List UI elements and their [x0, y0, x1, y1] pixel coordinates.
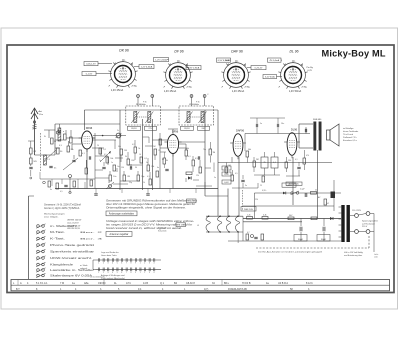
svg-text:A#a: A#a	[84, 282, 89, 285]
svg-text:LW KW 28,5V: LW KW 28,5V	[67, 228, 81, 230]
svg-text:70p: 70p	[203, 149, 206, 151]
svg-text:470: 470	[306, 155, 309, 157]
svg-text:0,4k: 0,4k	[263, 215, 267, 217]
svg-text:0,5: 0,5	[60, 191, 63, 193]
svg-text:5n: 5n	[54, 168, 56, 170]
svg-text:auf Rückwand: auf Rückwand	[362, 223, 375, 225]
svg-text:2: 2	[144, 272, 145, 274]
svg-text:Änderungen vorbehalten: Änderungen vorbehalten	[109, 213, 135, 216]
svg-text:g: g	[302, 65, 303, 67]
svg-text:8 12 b: 8 12 b	[306, 282, 313, 285]
svg-text:LW: LW	[34, 151, 37, 153]
svg-text:g: g	[245, 65, 246, 67]
svg-text:3n: 3n	[117, 166, 119, 168]
svg-text:0,4V: 0,4V	[224, 182, 229, 184]
svg-text:Antennen regelbar: Antennen regelbar	[110, 233, 129, 236]
svg-text:4,7: 4,7	[247, 232, 250, 234]
svg-text:50k: 50k	[118, 146, 121, 148]
svg-text:50k: 50k	[248, 149, 251, 151]
svg-text:1,2m: 1,2m	[39, 114, 44, 116]
svg-text:2M: 2M	[256, 159, 259, 161]
svg-text:7: 7	[126, 272, 127, 274]
svg-text:12k: 12k	[196, 175, 199, 177]
svg-text:B6 u: B6 u	[224, 282, 230, 285]
svg-text:Phono-Taste gedrückt: Phono-Taste gedrückt	[50, 244, 95, 247]
svg-text:1M: 1M	[124, 150, 127, 152]
svg-text:über 10V mit 333Ω/Volt gegen M: über 10V mit 333Ω/Volt gegen Masse gemes…	[106, 203, 195, 206]
svg-text:1,2V 0,3mA: 1,2V 0,3mA	[141, 66, 153, 69]
svg-text:6,3: 6,3	[59, 145, 62, 147]
svg-text:1: 1	[98, 263, 99, 265]
svg-text:Gnd an t.) Ug=0..220V (T)=: Gnd an t.) Ug=0..220V (T)=625mA	[44, 207, 80, 210]
svg-text:Q 1: Q 1	[160, 282, 165, 285]
svg-text:mit 2x Umlenkrolle: mit 2x Umlenkrolle	[90, 276, 105, 279]
svg-text:8: 8	[131, 263, 132, 265]
svg-text:20: 20	[97, 145, 99, 147]
svg-text:1,4V 50mA: 1,4V 50mA	[289, 90, 302, 93]
svg-text:150: 150	[121, 167, 124, 169]
svg-text:14 B: 14 B	[143, 282, 148, 285]
svg-text:Eisenkern 0,5 n: Eisenkern 0,5 n	[343, 140, 357, 142]
svg-text:0,5V 0,2mA: 0,5V 0,2mA	[218, 59, 230, 62]
svg-text:DK 96: DK 96	[119, 49, 129, 53]
svg-text:5k: 5k	[315, 190, 317, 192]
svg-text:Voll in 110 Volt-Stellg.: Voll in 110 Volt-Stellg.	[344, 251, 364, 254]
svg-text:Litzen beim Trafo:: Litzen beim Trafo:	[101, 254, 117, 257]
svg-text:0,5: 0,5	[195, 158, 198, 160]
svg-text:B.T: B.T	[16, 288, 20, 291]
svg-text:Lautstärke m. Schalter: Lautstärke m. Schalter	[50, 269, 94, 272]
svg-text:4: 4	[112, 272, 113, 274]
svg-text:1k: 1k	[143, 182, 145, 184]
svg-text:25k: 25k	[151, 166, 154, 168]
svg-text:3: 3	[108, 263, 109, 265]
svg-text:g: g	[170, 64, 171, 66]
svg-text:g: g	[285, 64, 286, 66]
svg-text:+F,Bg: +F,Bg	[131, 86, 137, 88]
svg-text:5: 5	[117, 272, 118, 274]
svg-text:und Entstörung über: und Entstörung über	[344, 254, 362, 257]
svg-text:RGB 480: RGB 480	[313, 119, 322, 121]
svg-text:3k: 3k	[125, 156, 127, 158]
svg-text:MW: MW	[34, 161, 37, 163]
svg-text:30k: 30k	[186, 148, 189, 150]
svg-text:M-Tast.: M-Tast.	[50, 231, 66, 234]
svg-text:0,8V 1,9mA: 0,8V 1,9mA	[188, 67, 200, 70]
svg-text:Pin By: Pin By	[307, 67, 314, 69]
svg-text:NSF 105: NSF 105	[244, 209, 253, 211]
svg-text:DF 96: DF 96	[174, 50, 183, 54]
svg-text:im Metallge-: im Metallge-	[343, 127, 354, 130]
svg-text:F Sk: F Sk	[196, 102, 200, 104]
svg-text:0,9V: 0,9V	[224, 174, 229, 176]
svg-text:3: 3	[149, 263, 150, 265]
svg-text:+F,Bg: +F,Bg	[244, 87, 250, 89]
svg-text:6: 6	[121, 263, 122, 265]
svg-text:1(7): 1(7)	[204, 288, 208, 291]
svg-text:2: 2	[144, 263, 145, 265]
svg-text:0,3: 0,3	[188, 156, 191, 158]
svg-text:8k: 8k	[166, 160, 168, 162]
svg-text:50k: 50k	[110, 158, 113, 160]
svg-text:Spannungswähler: Spannungswähler	[362, 221, 378, 223]
svg-text:g: g	[115, 63, 116, 65]
svg-text:5n: 5n	[214, 177, 216, 179]
svg-text:4: 4	[112, 263, 113, 265]
svg-text:1: 1	[140, 272, 141, 274]
svg-text:Ber. 3: Ber. 3	[80, 238, 105, 241]
svg-text:DL 96: DL 96	[290, 50, 299, 54]
svg-text:DAF 96: DAF 96	[231, 50, 243, 54]
svg-text:10n: 10n	[113, 176, 116, 178]
svg-text:m. Skala: m. Skala	[80, 265, 88, 267]
svg-text:70 mV wird: 70 mV wird	[343, 134, 353, 136]
svg-text:ZF 460kHz: ZF 460kHz	[136, 104, 146, 106]
svg-text:g: g	[132, 64, 133, 66]
svg-text:110..220V: 110..220V	[352, 210, 362, 212]
svg-text:seite: seite	[374, 256, 378, 259]
svg-text:g: g	[228, 64, 229, 66]
svg-text:UKW-Vorsatz anschl.: UKW-Vorsatz anschl.	[50, 257, 93, 260]
svg-text:4x: 4x	[50, 189, 52, 191]
svg-text:0,5: 0,5	[104, 154, 107, 156]
svg-text:2M: 2M	[127, 176, 130, 178]
svg-text:Micky-Boy ML: Micky-Boy ML	[322, 49, 386, 59]
svg-text:1: 1	[98, 272, 99, 274]
svg-text:Skalenlampe 6V 0,05A: Skalenlampe 6V 0,05A	[50, 275, 93, 278]
svg-text:m. Wellensch.: m. Wellensch.	[50, 226, 78, 228]
svg-text:7: 7	[126, 263, 127, 265]
svg-text:1,2k: 1,2k	[247, 215, 251, 217]
svg-text:30: 30	[135, 167, 137, 169]
svg-text:0,1: 0,1	[82, 153, 85, 155]
svg-text:5k: 5k	[138, 148, 140, 150]
svg-text:häuse Tonblende: häuse Tonblende	[343, 131, 359, 133]
svg-text:200: 200	[131, 160, 134, 162]
svg-text:0,45-1,3V: 0,45-1,3V	[86, 64, 96, 66]
svg-text:0,1: 0,1	[147, 176, 150, 178]
svg-text:Der Ein-Aus-Schalter ist mit d: Der Ein-Aus-Schalter ist mit dem Lautstä…	[258, 250, 323, 253]
svg-text:7p: 7p	[99, 160, 101, 162]
svg-text:Lage und Farbe der: Lage und Farbe der	[101, 252, 119, 254]
svg-text:1,2V 1,6mA: 1,2V 1,6mA	[155, 59, 167, 62]
svg-text:5n: 5n	[146, 162, 148, 164]
svg-text:1,4V 25mA: 1,4V 25mA	[232, 90, 245, 93]
svg-text:1,4V 25mA: 1,4V 25mA	[111, 89, 124, 92]
svg-text:L5: L5	[197, 225, 199, 227]
svg-text:Ber. 2: Ber. 2	[80, 231, 105, 234]
svg-text:verbund.: verbund.	[80, 267, 88, 270]
svg-text:4: 4	[154, 263, 155, 265]
svg-text:50μF: 50μF	[321, 239, 327, 241]
svg-text:10n: 10n	[281, 123, 284, 125]
svg-text:ter, ranges 10V/333 Ω on DC/3: ter, ranges 10V/333 Ω on DC/3 V-V. Measu…	[106, 224, 192, 227]
svg-text:6,2V: 6,2V	[308, 70, 313, 72]
svg-text:26V: 26V	[202, 128, 206, 130]
svg-text:einst. Voltgem.: einst. Voltgem.	[44, 216, 59, 219]
svg-text:Ortsempfänger eingestellt, o: Ortsempfänger eingestellt, ohne Signal a…	[106, 207, 186, 210]
svg-text:C9V30: C9V30	[98, 282, 106, 285]
svg-text:150: 150	[288, 160, 291, 162]
svg-text:1: 1	[140, 263, 141, 265]
svg-text:A7 b: A7 b	[126, 282, 132, 285]
svg-text:Ant: Ant	[39, 110, 43, 113]
svg-text:7 M: 7 M	[60, 282, 64, 285]
svg-text:1k2: 1k2	[326, 203, 329, 205]
svg-text:10: 10	[139, 154, 141, 156]
svg-text:Prallwand 7,5 k: Prallwand 7,5 k	[343, 137, 357, 139]
svg-text:local receiver tuned in, w: local receiver tuned in, without signal …	[106, 227, 183, 230]
svg-text:4n: 4n	[157, 167, 159, 169]
svg-text:220: 220	[255, 199, 258, 201]
svg-text:2: 2	[103, 272, 104, 274]
svg-text:Licht-: Licht-	[374, 253, 379, 256]
svg-text:0-1,5V: 0-1,5V	[86, 74, 93, 76]
svg-text:Netzgleichr.: Netzgleichr.	[289, 182, 300, 185]
svg-text:0,1: 0,1	[273, 162, 276, 164]
svg-text:1n: 1n	[111, 162, 113, 164]
svg-text:ZF 460kHz: ZF 460kHz	[189, 104, 199, 106]
svg-text:0,5: 0,5	[235, 173, 238, 175]
svg-text:F Sk: F Sk	[143, 102, 147, 104]
svg-text:U4 B R A: U4 B R A	[278, 282, 288, 285]
svg-text:8: 8	[131, 272, 132, 274]
svg-text:1M: 1M	[213, 152, 216, 154]
svg-text:0,25-4V: 0,25-4V	[255, 68, 263, 70]
svg-text:28,5V: 28,5V	[184, 128, 190, 130]
svg-text:K-Tast.: K-Tast.	[50, 238, 66, 241]
svg-text:28,5V: 28,5V	[131, 128, 137, 130]
svg-text:50μF: 50μF	[298, 239, 304, 241]
svg-text:9: 9	[135, 272, 136, 274]
svg-text:Klangblende: Klangblende	[50, 265, 74, 267]
svg-text:25: 25	[260, 185, 262, 187]
svg-text:5n: 5n	[260, 123, 262, 125]
svg-text:+F,Bg: +F,Bg	[301, 87, 307, 89]
svg-text:50p: 50p	[141, 176, 144, 178]
svg-text:Gemessen i. N-St. 220V (T)=22: Gemessen i. N-St. 220V (T)=220mA	[44, 204, 81, 207]
svg-text:3n: 3n	[245, 185, 247, 187]
svg-text:5: 5	[117, 263, 118, 265]
svg-text:Wechselspannungen:: Wechselspannungen:	[44, 214, 65, 216]
svg-text:DK96: DK96	[86, 126, 93, 130]
svg-text:Sperrkreis einstellbar: Sperrkreis einstellbar	[50, 251, 95, 254]
svg-text:0,1: 0,1	[144, 158, 147, 160]
svg-text:C8 A0 8: C8 A0 8	[186, 282, 195, 285]
svg-text:220 V: 220 V	[362, 226, 368, 228]
svg-text:0,1: 0,1	[295, 159, 298, 161]
svg-text:2: 2	[103, 263, 104, 265]
svg-text:R.REDLANTZ AB: R.REDLANTZ AB	[228, 288, 247, 291]
svg-text:25p: 25p	[129, 182, 132, 184]
svg-text:4V 0,4mA: 4V 0,4mA	[269, 59, 279, 62]
svg-text:+F,Bg: +F,Bg	[186, 87, 192, 89]
svg-text:UNTEN 100mV: UNTEN 100mV	[67, 220, 82, 222]
svg-text:0,2: 0,2	[132, 144, 135, 146]
svg-text:Gemessen mit GRUNDIG Röhrenvo: Gemessen mit GRUNDIG Röhrenvoltmeter auf…	[106, 200, 198, 203]
svg-text:50: 50	[108, 182, 110, 184]
svg-text:DL96: DL96	[291, 128, 298, 132]
svg-text:6,3V~: 6,3V~	[262, 190, 267, 192]
svg-text:H 6 R B: H 6 R B	[242, 282, 251, 285]
svg-text:1,4V 25mA: 1,4V 25mA	[164, 90, 177, 93]
svg-text:25: 25	[263, 162, 265, 164]
svg-text:5 1 8 1 A 1: 5 1 8 1 A 1	[36, 282, 48, 285]
svg-text:6: 6	[121, 272, 122, 274]
svg-text:5,2V 6mA: 5,2V 6mA	[265, 76, 275, 79]
svg-text:3: 3	[108, 272, 109, 274]
svg-text:9: 9	[135, 263, 136, 265]
svg-text:3: 3	[149, 272, 150, 274]
svg-text:4: 4	[154, 272, 155, 274]
svg-text:DAF96: DAF96	[236, 129, 245, 133]
svg-text:U=0,1 52mV: U=0,1 52mV	[67, 222, 79, 224]
svg-text:0,1: 0,1	[103, 149, 106, 151]
